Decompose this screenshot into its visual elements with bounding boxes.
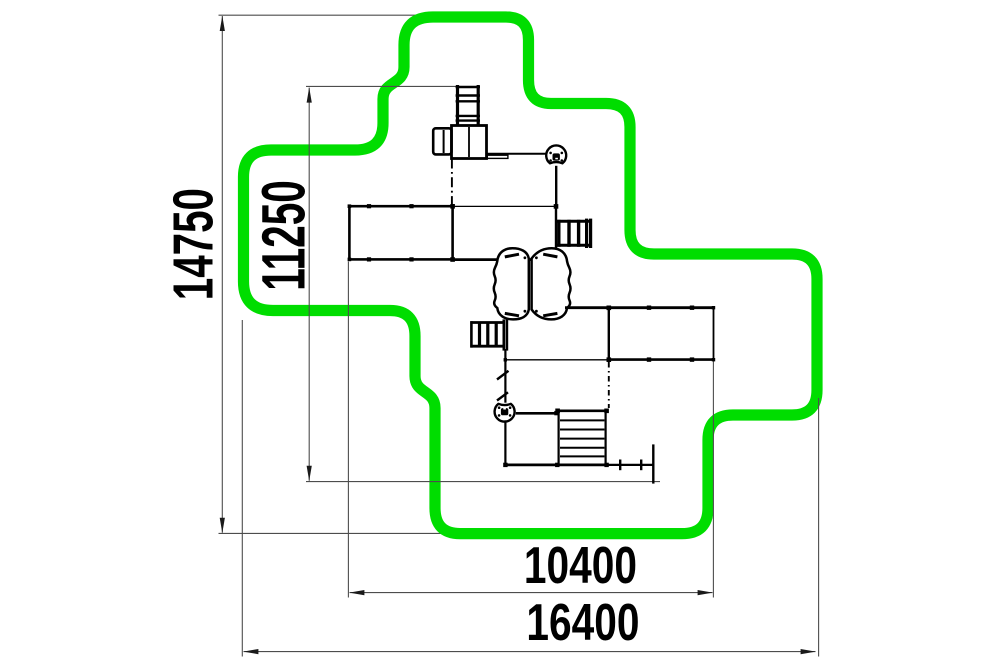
lower-right platform [505, 308, 714, 408]
dimension 10400 line [350, 592, 713, 594]
posts lower block [503, 409, 609, 468]
lower block left edge below wheel [504, 420, 506, 466]
upper platform right section [453, 205, 556, 207]
rail bar to steering wheel [487, 153, 547, 155]
upper stairs [557, 219, 592, 248]
arrow 10400 right [698, 590, 713, 595]
lower access ladder [470, 319, 507, 350]
extension line left of 16400 [241, 320, 243, 657]
double slide right chute [532, 248, 571, 319]
steering wheel top [546, 145, 566, 163]
steering wheel bottom [495, 404, 515, 422]
lower stairs [556, 411, 608, 465]
arrow 11250 top [307, 87, 312, 102]
dimension 16400 line [244, 651, 816, 653]
upper platform left section [349, 206, 452, 259]
top access ladder [456, 85, 480, 126]
lower block bottom edge [504, 463, 608, 466]
extension line top of 11250 [306, 85, 456, 87]
safety zone outline [244, 17, 818, 534]
arrow 16400 left [243, 649, 258, 654]
extension line bottom of 11250 [306, 481, 660, 483]
double slide left chute [494, 248, 529, 319]
svg-text:10400: 10400 [524, 536, 637, 594]
dimension 11250 line [308, 88, 310, 481]
svg-text:11250: 11250 [250, 180, 318, 291]
top tower deck [452, 126, 487, 159]
arrow 10400 left [349, 590, 364, 595]
arrow 14750 top [220, 16, 225, 31]
svg-text:16400: 16400 [526, 593, 639, 651]
dimension 14750 line [221, 16, 223, 533]
arrow 16400 right [801, 649, 816, 654]
arrow 11250 bottom [307, 466, 312, 481]
post line from wheel down to platform [555, 166, 557, 207]
crawl tube [433, 128, 451, 154]
extension line top of 14750 [219, 14, 471, 16]
extension line right of 10400 [712, 360, 714, 598]
rail bar from bottom wheel [516, 412, 557, 415]
extension line right of 16400 [818, 398, 820, 657]
platform posts [348, 204, 559, 262]
lower block left edge with climb marks [497, 349, 509, 403]
dash-dot link tower to platform [451, 159, 453, 207]
svg-text:14750: 14750 [162, 188, 225, 300]
extension line bottom of 14750 (under zone) [219, 532, 667, 534]
slide entry marks [505, 254, 558, 316]
extension line left of 10400 [347, 262, 349, 598]
arrow 14750 bottom [220, 518, 225, 533]
balance beam [608, 444, 654, 483]
